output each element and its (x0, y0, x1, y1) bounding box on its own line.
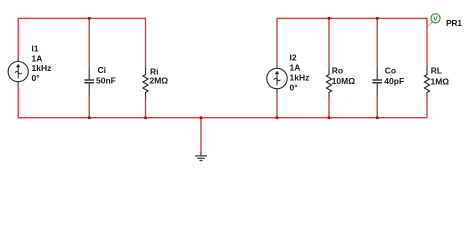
svg-text:50nF: 50nF (96, 76, 116, 86)
svg-text:V: V (433, 16, 438, 23)
label I2 values (290, 52, 310, 92)
wire Co branch top (376, 18, 378, 67)
junction bottom Ci (88, 116, 91, 119)
junction bottom Ri (144, 116, 147, 119)
junction top Ci (88, 17, 91, 20)
wire Ci branch top (88, 18, 90, 67)
svg-text:0°: 0° (32, 73, 41, 83)
wire Ro branch top (328, 18, 330, 68)
ground (195, 152, 207, 161)
resistor RL (424, 68, 429, 98)
svg-text:1kHz: 1kHz (290, 72, 310, 82)
svg-text:10MΩ: 10MΩ (332, 76, 356, 86)
svg-text:1kHz: 1kHz (32, 63, 52, 73)
probe PR1 tail (427, 22, 432, 27)
current source I2 (267, 64, 287, 94)
svg-text:40pF: 40pF (384, 76, 404, 86)
wire Co branch bottom (376, 96, 378, 119)
svg-text:Ro: Ro (332, 66, 343, 76)
wire I2 branch bottom (276, 94, 278, 118)
capacitor Co (372, 67, 382, 96)
svg-text:RL: RL (431, 65, 442, 75)
label I1 values (32, 43, 52, 83)
ground wire stub (200, 117, 202, 152)
svg-text:1A: 1A (32, 53, 43, 63)
svg-text:Co: Co (385, 66, 396, 76)
junction top Co (376, 17, 379, 20)
svg-text:1A: 1A (290, 62, 301, 72)
resistor Ri (143, 68, 148, 98)
wire I2 branch top (276, 18, 278, 65)
svg-text:I1: I1 (32, 43, 39, 53)
wire RL branch top (426, 18, 428, 68)
label Co values (384, 66, 404, 87)
junction bottom Co (376, 116, 379, 119)
svg-text:I2: I2 (290, 52, 297, 62)
label Ro values (332, 66, 356, 87)
wire top-right rail (277, 17, 427, 19)
svg-text:1MΩ: 1MΩ (431, 76, 450, 86)
label Ri values (150, 67, 169, 86)
wire top-left rail (18, 17, 145, 19)
wire I1 branch top (17, 18, 19, 58)
label Ci values (96, 65, 116, 85)
svg-text:Ci: Ci (98, 65, 107, 75)
probe PR1 (431, 14, 440, 23)
junction bottom Ro (328, 116, 331, 119)
wire I1 branch bottom (17, 85, 19, 118)
svg-text:PR1: PR1 (446, 18, 462, 28)
wire Ri branch bottom (145, 98, 147, 119)
junction top Ro (328, 17, 331, 20)
wire Ci branch bottom (88, 96, 90, 119)
capacitor Ci (84, 67, 94, 96)
label RL values (431, 65, 450, 86)
resistor Ro (326, 68, 331, 98)
wire Ro branch bottom (328, 98, 330, 119)
current source I1 (8, 58, 28, 85)
svg-text:0°: 0° (290, 82, 299, 92)
wire RL branch bottom (426, 98, 428, 119)
wire bottom rail (18, 117, 427, 119)
junction bottom I2 (276, 116, 279, 119)
junction bottom ground (200, 116, 203, 119)
svg-text:2MΩ: 2MΩ (150, 76, 169, 86)
wire Ri branch top (145, 18, 147, 68)
